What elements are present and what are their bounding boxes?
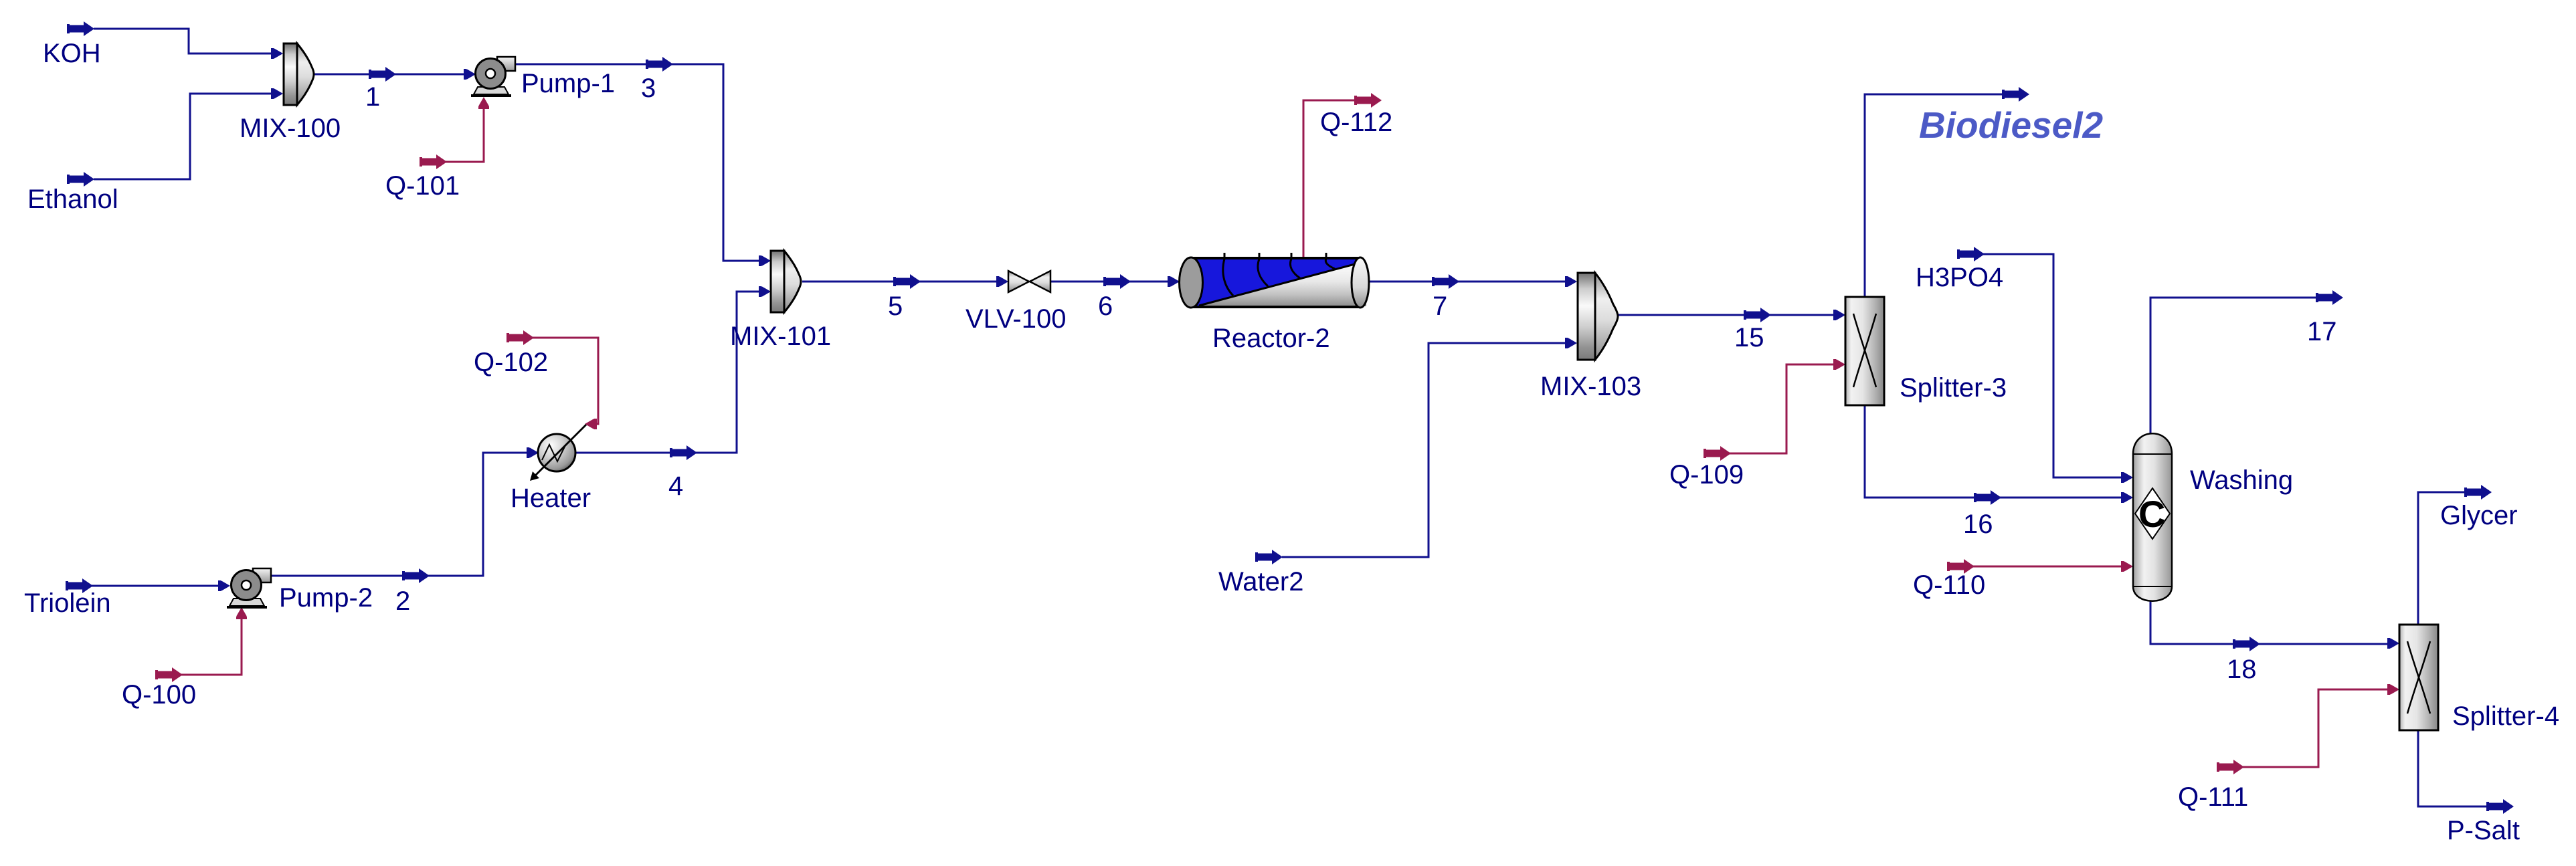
svg-text:4: 4 bbox=[668, 471, 683, 501]
svg-text:Q-109: Q-109 bbox=[1669, 460, 1744, 490]
svg-text:5: 5 bbox=[888, 292, 903, 321]
svg-text:16: 16 bbox=[1963, 510, 1993, 539]
svg-text:Q-111: Q-111 bbox=[2178, 782, 2248, 812]
svg-text:H3PO4: H3PO4 bbox=[1916, 263, 2003, 292]
svg-text:Heater: Heater bbox=[511, 483, 591, 513]
svg-text:15: 15 bbox=[1734, 323, 1764, 352]
svg-text:MIX-100: MIX-100 bbox=[240, 114, 341, 143]
svg-text:VLV-100: VLV-100 bbox=[965, 304, 1067, 334]
svg-text:18: 18 bbox=[2227, 655, 2257, 684]
svg-text:Glycer: Glycer bbox=[2440, 501, 2518, 530]
svg-text:Pump-2: Pump-2 bbox=[279, 583, 373, 613]
svg-text:MIX-103: MIX-103 bbox=[1540, 372, 1641, 401]
svg-text:MIX-101: MIX-101 bbox=[730, 322, 831, 351]
svg-text:Q-100: Q-100 bbox=[122, 680, 196, 710]
svg-text:Reactor-2: Reactor-2 bbox=[1212, 324, 1330, 353]
svg-text:Biodiesel2: Biodiesel2 bbox=[1919, 104, 2104, 146]
svg-text:P-Salt: P-Salt bbox=[2447, 816, 2520, 845]
svg-text:1: 1 bbox=[365, 82, 380, 112]
svg-text:Q-112: Q-112 bbox=[1320, 108, 1392, 137]
svg-text:Splitter-4: Splitter-4 bbox=[2452, 701, 2559, 731]
svg-text:Q-102: Q-102 bbox=[474, 348, 548, 377]
svg-text:Water2: Water2 bbox=[1218, 567, 1303, 597]
svg-text:2: 2 bbox=[395, 586, 410, 616]
svg-text:KOH: KOH bbox=[43, 39, 101, 68]
svg-text:Q-101: Q-101 bbox=[385, 171, 460, 201]
svg-text:7: 7 bbox=[1433, 292, 1447, 321]
svg-text:Washing: Washing bbox=[2190, 465, 2293, 495]
svg-text:17: 17 bbox=[2307, 317, 2337, 346]
svg-text:Pump-1: Pump-1 bbox=[521, 69, 615, 98]
svg-text:Triolein: Triolein bbox=[24, 588, 111, 618]
svg-text:Q-110: Q-110 bbox=[1913, 570, 1985, 600]
svg-text:Splitter-3: Splitter-3 bbox=[1900, 373, 2007, 403]
svg-text:C: C bbox=[2138, 493, 2165, 535]
svg-text:3: 3 bbox=[641, 74, 656, 103]
svg-text:Ethanol: Ethanol bbox=[27, 185, 118, 214]
svg-text:6: 6 bbox=[1098, 292, 1113, 321]
